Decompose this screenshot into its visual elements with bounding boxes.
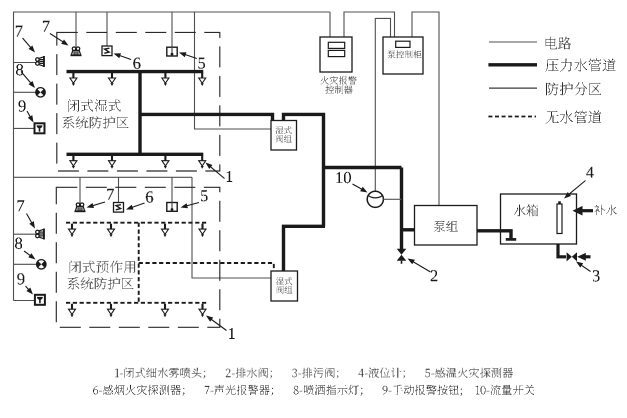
label 4 with arrow (level gauge) [569,181,586,195]
wet valve group 1 box [271,121,297,151]
sprinkler head #4 zone1 bottom manifold [201,155,203,160]
pipe: zone1 feed branch to wet valve group 1 with elbow down [140,114,273,120]
wire: flow switch to pump riser pipe [383,198,401,200]
legend: protection zone sample + text [489,87,537,89]
sprinkler head #3 zone2 top manifold [164,224,166,229]
wire: zone1 temp detector 5 drop [171,12,173,48]
wire: alarm controller left top stub [329,12,331,37]
label 9 with arrow (zone1 button) [27,111,31,117]
pipe: tank drain elbow down and right to blowoff valve 3 [558,244,566,257]
wire: pump control cabinet to pump group (x=439) [412,12,439,206]
label 7 with arrow (zone2 inner alarm) [92,202,105,206]
pipe: zone1 bottom sprinkler manifold [67,153,204,156]
wire: left vertical device bus [13,12,15,301]
label 6 with arrow (zone2 smoke) [132,203,145,208]
label 2 with arrow (drain valve) [413,262,431,273]
dashed pipe: zone2 riser (waterless) [138,223,140,303]
legend: circuit line sample + text dianlu [489,41,537,43]
wire: fire alarm controller to pump control cabinet link [344,12,395,37]
wire: tap to sound-light alarm 7 (zone1) [14,62,37,64]
sprinkler head #3 zone2 bottom manifold [164,304,166,309]
pipe: pump group discharge into water tank with down elbow [477,231,511,239]
sprinkler head #3 zone1 top manifold (closed mist nozzle, item 1) [164,73,166,78]
legend: waterless pipe sample + text [488,116,536,118]
icon: sound-light alarm 7 inside zone2 [75,203,84,211]
icon: manual alarm button 9 (left bus, zone2) [35,295,45,305]
sprinkler head #4 zone2 top manifold [201,224,203,229]
sprinkler head #1 zone2 bottom manifold [71,304,73,309]
sprinkler head #2 zone2 top manifold [110,224,112,229]
label 3 with arrow (blowoff valve) [581,265,591,272]
protection zone 2 border (closed pre-action system) dashed rectangle [56,187,220,327]
wire: drop to wet valve group 1 (vertical x=194.5 + horizontal into box) [195,12,271,129]
icon: indicator lamp 8 (left bus, zone1) [36,88,45,97]
icon: smoke detector 6 zone1 [102,46,112,56]
label 1 with arrow (zone2 sprinkler) [211,319,227,331]
label: fire alarm controller (huozai baojing kongzhiqi) [321,76,357,84]
flow switch 10 (circle with float) [367,191,383,207]
wire: flow switch riser to pump control cabinet (x=375.3 / y=18.4 / x=390.5) [375,18,390,191]
sprinkler head #4 zone2 bottom manifold [201,304,203,309]
pipe: pump riser vertical down to drain valve 2 [400,168,403,250]
label 6 with arrow (zone1 smoke) [119,55,131,59]
label: zone1 closed wet system protection area text [68,100,121,113]
label 5 with arrow (zone2 temp) [186,203,199,206]
wire: zone2 smoke detector 6 drop [118,177,120,203]
wire: tap to sound-light alarm 7 (zone2) [14,233,38,235]
wire: tap to manual button 9 (zone1) [14,127,35,129]
blowoff valve 3 (horizontal bowtie at tank drain) [567,252,572,261]
sprinkler head #4 zone1 top manifold (closed mist nozzle, item 1) [201,73,203,78]
pipe: discharge foot flange inside tank [506,238,516,241]
pipe: branch to pump group suction (y=229.8) [400,228,415,231]
sprinkler head #1 zone1 bottom manifold [72,155,74,160]
label 5 with arrow (zone1 temp) [185,54,197,58]
wire: tap to manual button 9 (zone2) [14,300,36,302]
icon: temp detector 5 zone2 [167,203,177,212]
label 9 with arrow (zone2 button) [26,286,30,290]
icon: sound-light alarm 7 inside zone1 [71,47,80,55]
sprinkler head #1 zone1 top manifold (closed mist nozzle, item 1) [72,73,74,78]
icon: indicator lamp 8 (left bus, zone2) [37,260,46,269]
dashed pipe: zone2 branch to valve group 2 (waterless) [139,263,274,271]
sprinkler head #2 zone2 bottom manifold [110,304,112,309]
pump control cabinet box [383,37,423,74]
wire: main circuit bus (top horizontal) from left riser to fire alarm controller [14,11,331,13]
icon: smoke detector 6 zone2 [114,203,124,213]
wire: tap to indicator lamp 8 (zone1) [14,91,37,93]
pipe: run to pre-action valve group 2 (left along y=226.3 and down into box) [284,226,326,271]
sprinkler head #3 zone1 bottom manifold [164,155,166,160]
pipe: main horizontal run to pump riser (y=167.5) [322,166,402,169]
level gauge 4 inside tank [557,204,562,234]
wire: zone2 detector collector line y=176.4 [14,176,193,178]
wire: zone2 alarm icon 7 drop [79,177,81,203]
icon: sound-light alarm 7 (left bus, zone2, horn pointing left) [36,229,44,240]
make-up water (bushui) inlet arrow into tank [578,209,593,212]
drain valve 2 (vertical bowtie at pump riser bottom) [397,249,407,255]
legend: pressure water pipe sample + text [488,63,537,66]
water tank box [501,194,577,244]
pre-action (wet) valve group 2 box [271,271,298,301]
label 10 with arrow (flow switch) [353,184,363,190]
dashed pipe: zone2 bottom sprinkler manifold (waterless) [66,302,209,304]
sprinkler head #2 zone1 top manifold (closed mist nozzle, item 1) [111,73,113,78]
wire: zone2 collector drop to valve group 2 (x=192) [192,177,271,278]
wire: zone1 smoke detector 6 drop [106,12,108,46]
icon: temp detector 5 zone1 [167,47,177,56]
label 7 with arrow (zone2 left alarm) [27,214,33,224]
label 7 with arrow (zone1 left alarm) [23,38,32,48]
pump group box [415,206,478,246]
wire: zone2 temp detector 5 drop [171,177,173,203]
protection zone 1 border (closed wet system) dashed rectangle [57,32,220,171]
dashed pipe: zone2 top sprinkler manifold (waterless) [66,222,209,224]
sprinkler head #2 zone1 bottom manifold [111,155,113,160]
caption line 2: items 6-10 legend text [93,385,534,396]
label 7 with arrow (zone1 inner alarm) [50,34,64,43]
label 8 with arrow (zone1 lamp) [21,72,31,84]
pipe: blowoff outlet stub with flow arrow [585,255,591,258]
wire: tap to indicator lamp 8 (zone2) [14,263,37,265]
icon: manual alarm button 9 (left bus, zone1) [35,123,45,133]
sprinkler head #1 zone2 top manifold [71,224,73,229]
caption line 1: items 1-5 legend text [115,368,513,379]
label 1 with arrow (zone1 sprinkler) [210,166,224,178]
label 8 with arrow (zone2 lamp) [24,251,31,256]
pipe: zone1 top sprinkler manifold [67,70,204,73]
pipe: zone1 riser [138,70,141,156]
fire alarm controller box with two indicator windows [320,37,352,72]
icon: sound-light alarm 7 (left bus, zone1, horn pointing left) [36,56,44,67]
pipe: wet valve group 1 outlet up and main run right then down (x=323.5) [284,114,324,226]
label: zone2 closed pre-action system protection area text [70,261,135,274]
wire: zone1 alarm icon 7 drop [75,12,77,47]
